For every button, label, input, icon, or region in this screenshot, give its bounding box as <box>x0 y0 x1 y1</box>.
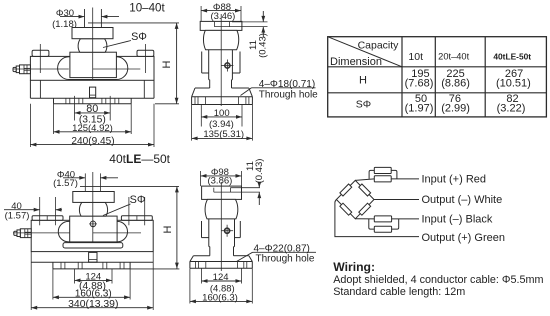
input- wire <box>355 218 419 220</box>
dimension 11 (0.43) <box>214 11 268 58</box>
rocker ball <box>78 39 107 53</box>
svg-text:Standard cable length: 12m: Standard cable length: 12m <box>333 286 465 298</box>
table grid <box>328 37 547 117</box>
svg-text:(0.43): (0.43) <box>257 33 268 58</box>
strain gauge R4 bottom-right <box>359 203 371 215</box>
H dimension line <box>161 23 179 104</box>
input+ wire <box>355 179 419 181</box>
svg-text:Through hole: Through hole <box>256 253 315 264</box>
svg-text:135(5.31): 135(5.31) <box>203 129 244 140</box>
svg-text:40tLE—50t: 40tLE—50t <box>109 152 170 166</box>
central loading block <box>70 216 117 242</box>
wiring notes <box>333 260 543 298</box>
flange through hole marks <box>61 262 124 269</box>
spherical contact pad <box>214 22 229 27</box>
dimension label Phi40 (1.57) <box>53 170 78 190</box>
svg-text:Dimension: Dimension <box>330 56 382 68</box>
dimension lines Phi88 <box>201 6 241 21</box>
dimension label Phi30 (1.18) <box>52 8 77 30</box>
rocker ball side <box>205 199 238 219</box>
svg-text:H: H <box>161 60 173 68</box>
svg-text:20t–40t: 20t–40t <box>438 52 469 62</box>
strain gauge R1 top-left <box>340 184 352 196</box>
leader 4-Phi18 through hole <box>241 79 319 101</box>
strain gauge R3 bottom-left <box>340 203 352 215</box>
svg-text:160(6.3): 160(6.3) <box>202 292 238 303</box>
dimension 40 (1.57) <box>4 201 62 222</box>
svg-text:100: 100 <box>214 108 230 119</box>
svg-text:Φ30: Φ30 <box>56 8 74 19</box>
svg-text:(1.57): (1.57) <box>53 178 78 189</box>
rocker ball side <box>203 30 238 49</box>
svg-text:SΦ: SΦ <box>130 194 146 206</box>
dimension lines Phi40 <box>63 173 118 191</box>
central loading block <box>70 52 117 77</box>
compensation resistor pair input- <box>369 216 399 232</box>
H dimension top extension line <box>88 22 179 24</box>
dimension 124 (4.88) <box>202 268 242 294</box>
base skirt <box>190 256 252 262</box>
row S-Phi <box>356 93 526 115</box>
svg-text:SΦ: SΦ <box>356 99 371 111</box>
svg-text:(3.22): (3.22) <box>497 103 526 115</box>
load cell front view 10-40t <box>13 2 179 147</box>
dimension label Phi88 (3.46) <box>210 2 235 22</box>
body horizontal centerline <box>13 232 141 234</box>
svg-text:(3.46): (3.46) <box>210 11 235 22</box>
bolt plate top left <box>32 197 63 225</box>
svg-text:SΦ: SΦ <box>131 31 147 43</box>
wiring heading <box>333 260 375 274</box>
load cell side view 40tLE-50t <box>190 159 316 304</box>
top cap <box>200 21 242 30</box>
svg-text:124: 124 <box>213 272 229 283</box>
main body block <box>30 56 154 80</box>
svg-text:10–40t: 10–40t <box>129 2 165 15</box>
bridge diamond <box>336 180 374 218</box>
side bosses <box>202 52 240 74</box>
label S-Phi with leader <box>103 194 146 215</box>
title 40tLE-50t <box>109 152 170 166</box>
svg-text:(1.57): (1.57) <box>5 211 30 222</box>
dimension 11 (0.43) <box>214 159 265 205</box>
svg-text:160(6.3): 160(6.3) <box>75 288 112 299</box>
H dimension line <box>162 186 179 268</box>
vertical centerline rocker pin <box>92 8 94 80</box>
dimension 124 (4.88) <box>75 269 113 292</box>
top cap <box>202 186 242 199</box>
main body block <box>31 220 153 251</box>
vertical centerline <box>220 14 222 106</box>
gauge circle <box>89 220 97 228</box>
svg-text:40tLE-50t: 40tLE-50t <box>493 52 531 62</box>
rocker pin cap <box>73 192 114 203</box>
row H <box>359 68 531 90</box>
center tab <box>90 87 96 98</box>
stadium shaped web cutout <box>58 57 128 80</box>
cable gland <box>13 65 30 74</box>
dimension 135 (5.31) <box>192 105 253 141</box>
dimension lines Phi30 <box>60 9 119 28</box>
rocker pin cap <box>72 28 113 39</box>
output- wire <box>374 199 419 201</box>
svg-text:340(13.39): 340(13.39) <box>68 299 118 310</box>
bottom pad <box>63 243 123 248</box>
svg-text:Input (–) Black: Input (–) Black <box>422 214 493 226</box>
leader 4-Phi22 through hole <box>237 244 317 265</box>
svg-text:240(9.45): 240(9.45) <box>71 136 114 147</box>
dimension lines Phi98 <box>201 171 242 186</box>
svg-text:(2.99): (2.99) <box>441 103 470 115</box>
lower plate section <box>30 80 154 98</box>
base flange side view <box>192 97 253 105</box>
label output plus green <box>422 232 505 244</box>
wiring line 2 <box>333 286 465 298</box>
svg-text:Through hole: Through hole <box>259 89 318 100</box>
svg-text:(8.86): (8.86) <box>441 78 470 90</box>
svg-text:H: H <box>359 75 367 87</box>
svg-text:(1.97): (1.97) <box>405 103 434 115</box>
svg-text:10t: 10t <box>408 51 423 63</box>
column body <box>209 219 235 256</box>
svg-text:4–Φ18(0.71): 4–Φ18(0.71) <box>259 79 315 90</box>
title 10-40t <box>129 2 165 15</box>
bolt plate top left <box>32 44 49 73</box>
bolt plate top right <box>121 197 152 225</box>
base flange <box>53 262 130 269</box>
gauge target symbol <box>221 60 233 72</box>
svg-text:Adopt shielded, 4 conductor ca: Adopt shielded, 4 conductor cable: Φ5.5m… <box>333 274 543 286</box>
label S-Phi with leader <box>103 31 147 48</box>
flange hole marks <box>195 97 249 105</box>
dimension 125 (4.92) <box>54 104 132 134</box>
ground plate line <box>31 261 153 263</box>
base skirt <box>192 88 253 97</box>
label output minus white <box>422 194 503 206</box>
flange through hole marks <box>66 98 119 104</box>
H dimension bottom extension line <box>155 103 179 105</box>
header Capacity / Dimension <box>330 40 399 68</box>
svg-text:(3.86): (3.86) <box>207 176 232 187</box>
body horizontal centerline <box>13 68 140 70</box>
dimension 340 (13.39) <box>31 252 153 310</box>
dimension 80 (3.15) <box>75 96 111 126</box>
column headers <box>408 51 531 63</box>
svg-text:Wiring:: Wiring: <box>333 260 375 274</box>
svg-text:Input (+) Red: Input (+) Red <box>422 174 487 186</box>
dimension 160 (6.3) <box>190 268 252 303</box>
rocker ball <box>79 202 107 216</box>
svg-text:Output (–) White: Output (–) White <box>422 194 503 206</box>
svg-text:125(4.92): 125(4.92) <box>72 123 113 134</box>
side bosses <box>202 221 241 238</box>
column body <box>209 50 233 88</box>
dimension 240 (9.45) <box>30 104 154 147</box>
spherical contact pad <box>214 188 231 192</box>
load cell front view 40tLE-50t <box>4 152 179 310</box>
cable gland <box>14 229 31 238</box>
H dimension top extension <box>80 185 179 187</box>
center tab <box>89 252 97 262</box>
dimension 100 (3.94) <box>201 105 242 130</box>
svg-text:Capacity: Capacity <box>358 40 400 52</box>
gauge target symbol <box>221 225 233 237</box>
H dimension bottom extension <box>130 268 179 270</box>
stadium web cutout <box>58 221 127 242</box>
label input minus black <box>422 214 493 226</box>
svg-text:H: H <box>162 225 174 233</box>
dimension 160 (6.3) <box>53 269 130 300</box>
base flange side view <box>190 262 252 269</box>
wheatstone bridge wiring diagram <box>335 167 505 243</box>
compensation resistor pair input+ <box>369 167 397 182</box>
vertical centerline <box>92 172 94 243</box>
bolt plate top right <box>137 44 154 73</box>
svg-text:Output (+) Green: Output (+) Green <box>422 232 505 244</box>
dimension label Phi98 (3.86) <box>207 167 232 187</box>
svg-text:(10.51): (10.51) <box>496 78 531 90</box>
svg-text:(7.68): (7.68) <box>405 78 434 90</box>
wiring line 1 <box>333 274 543 286</box>
strain gauge R2 top-right <box>359 184 371 196</box>
flange hole marks <box>195 262 246 269</box>
vertical centerline <box>220 182 222 271</box>
base flange <box>54 98 132 104</box>
output+ wire <box>335 200 419 237</box>
load cell side view 10-40t <box>192 2 319 141</box>
svg-text:(0.43): (0.43) <box>254 159 265 184</box>
capacity dimension table <box>328 37 547 117</box>
svg-text:80: 80 <box>86 103 98 115</box>
label input plus red <box>422 174 487 186</box>
